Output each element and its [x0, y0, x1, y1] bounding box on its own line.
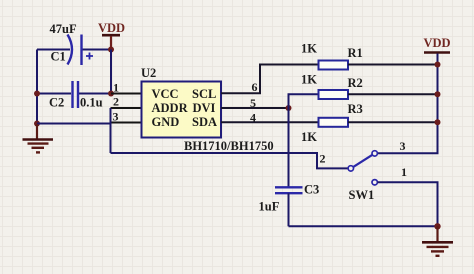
pin 5 DVI wire — [221, 107, 289, 109]
node ground junction right — [434, 223, 440, 229]
svg-text:2: 2 — [320, 152, 326, 166]
svg-text:R1: R1 — [348, 46, 363, 60]
node junction rail / R1 — [435, 62, 441, 68]
node junction rail / R3 — [435, 119, 441, 125]
node junction rail / R2 — [435, 91, 441, 97]
svg-text:0.1u: 0.1u — [80, 96, 103, 110]
svg-text:R3: R3 — [348, 102, 363, 116]
svg-text:R2: R2 — [348, 76, 363, 90]
capacitor C1 — [68, 35, 94, 66]
wire GND row to left rail — [37, 123, 111, 125]
resistor R1 — [319, 61, 349, 70]
svg-text:C2: C2 — [49, 96, 64, 110]
wire left ground rail vertical — [36, 50, 38, 125]
svg-text:5: 5 — [250, 96, 256, 110]
svg-text:SCL: SCL — [192, 87, 216, 101]
wire DVI node down to C3 — [288, 108, 290, 187]
capacitor C2 — [73, 81, 79, 108]
wire DVI node up to R2 — [289, 94, 319, 108]
pin 1 VCC stub wire — [111, 93, 142, 95]
svg-text:2: 2 — [113, 95, 119, 109]
pin 3 GND stub wire — [111, 122, 142, 124]
IC U2 BH1710/BH1750 body — [142, 82, 222, 138]
svg-text:4: 4 — [250, 111, 256, 125]
node junction DVI / R2 / C3 — [286, 105, 292, 111]
pin 2 ADDR stub wire — [111, 107, 142, 109]
power VDD right — [424, 36, 451, 53]
wire C2 row left segment — [37, 93, 71, 95]
node VDD junction left — [108, 47, 114, 53]
pin 4 SDA wire to R3 — [221, 121, 319, 123]
svg-text:SDA: SDA — [192, 115, 217, 129]
pin 6 SCL wire up to R1 row — [221, 65, 319, 94]
svg-text:U2: U2 — [141, 66, 156, 80]
ground left — [23, 124, 54, 152]
svg-text:VDD: VDD — [98, 21, 125, 35]
svg-text:1uF: 1uF — [259, 199, 280, 213]
svg-text:GND: GND — [152, 115, 180, 129]
node junction left rail / C2 row — [34, 91, 40, 97]
svg-text:1K: 1K — [301, 73, 317, 87]
svg-text:SW1: SW1 — [349, 188, 375, 202]
node junction VCC pin / VDD drop — [108, 91, 114, 97]
wire VDD rail down to SW1 pin 3 — [378, 54, 438, 154]
wire ADDR net to SW1 pin 2 — [111, 153, 349, 168]
svg-text:DVI: DVI — [193, 101, 216, 115]
wire R1 to VDD rail — [348, 64, 438, 66]
wire C1 row left segment — [37, 49, 70, 51]
wire R3 to VDD rail — [348, 121, 438, 123]
svg-text:47uF: 47uF — [50, 22, 77, 36]
svg-text:1: 1 — [113, 81, 119, 95]
wire ADDR pin down — [110, 108, 112, 153]
wire bottom ground row — [289, 225, 438, 227]
svg-text:3: 3 — [113, 110, 119, 124]
wire C3 down to bottom row — [288, 193, 290, 226]
switch SW1 — [348, 151, 377, 185]
svg-text:C1: C1 — [51, 50, 66, 64]
wire C2 row right segment to VCC node — [79, 93, 111, 95]
power VDD left — [98, 21, 125, 50]
wire SW1 pin 1 to ground rail — [378, 182, 438, 226]
svg-text:1K: 1K — [301, 42, 317, 56]
resistor R3 — [319, 118, 349, 127]
resistor R2 — [319, 90, 349, 99]
node junction left rail / GND row — [34, 121, 40, 127]
svg-text:VDD: VDD — [424, 36, 451, 50]
svg-text:6: 6 — [252, 80, 258, 94]
ground right — [422, 226, 453, 256]
svg-text:1K: 1K — [301, 130, 317, 144]
svg-text:VCC: VCC — [152, 87, 179, 101]
wire VDD node down to VCC node — [110, 50, 112, 94]
capacitor C3 — [275, 187, 303, 193]
svg-text:C3: C3 — [304, 183, 319, 197]
svg-text:BH1710/BH1750: BH1710/BH1750 — [184, 139, 274, 153]
wire R2 to VDD rail — [348, 93, 438, 95]
svg-text:ADDR: ADDR — [152, 101, 189, 115]
svg-text:3: 3 — [400, 139, 406, 153]
svg-text:1: 1 — [401, 165, 407, 179]
wire C1 row right segment to VDD node — [82, 49, 112, 51]
